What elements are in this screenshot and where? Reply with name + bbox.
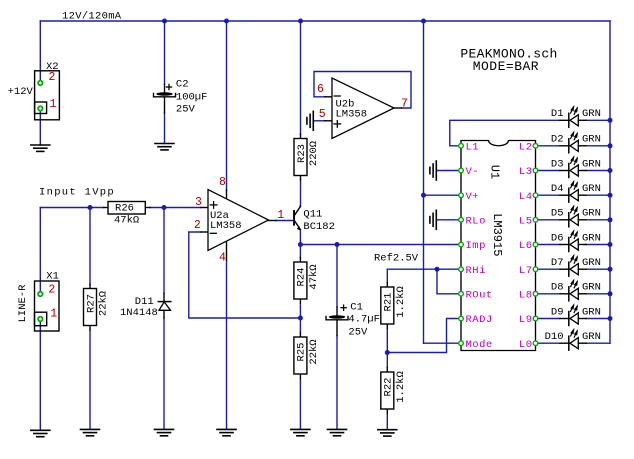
U2b value	[336, 109, 368, 121]
U1 pin label L8	[519, 289, 533, 301]
svg-text:D4: D4	[551, 183, 564, 195]
wire rail to V+ and Mode column	[423, 21, 425, 343]
junction R21/R22 divider	[385, 350, 390, 355]
D2 name	[551, 134, 564, 146]
svg-text:+12V: +12V	[8, 86, 34, 98]
ground C2	[155, 144, 174, 150]
resistor R23	[294, 134, 320, 180]
svg-text:25V: 25V	[348, 326, 368, 338]
svg-text:L9: L9	[519, 314, 533, 326]
X2 pin 1	[37, 105, 43, 111]
U1 value LM3915	[490, 213, 504, 256]
U2a pin 8 number	[219, 176, 226, 189]
svg-text:LM358: LM358	[336, 109, 368, 121]
wire input to X1 pin2	[39, 208, 41, 295]
svg-text:RLo: RLo	[466, 215, 486, 227]
svg-text:220Ω: 220Ω	[308, 141, 320, 166]
C2 value	[176, 91, 208, 103]
wire L2 to D2	[538, 145, 560, 147]
ground V-	[430, 161, 436, 180]
LED D9	[560, 305, 586, 325]
junction on 12V rail	[224, 19, 229, 24]
svg-text:GRN: GRN	[582, 331, 601, 343]
svg-text:1: 1	[50, 308, 57, 321]
capacitor C2	[154, 84, 176, 113]
wire D10 to LED rail	[586, 342, 610, 344]
junction V+ branch	[421, 193, 426, 198]
D8 name	[551, 282, 564, 294]
U2b pin 6 number	[317, 83, 324, 96]
ground R25	[291, 429, 310, 435]
transistor Q11	[293, 206, 301, 231]
wire L1 to D1	[450, 120, 560, 146]
D1 name	[551, 108, 564, 120]
svg-text:7: 7	[401, 98, 408, 111]
wire D8 to LED rail	[586, 293, 610, 295]
U1 pin label L9	[519, 314, 533, 326]
svg-text:47kΩ: 47kΩ	[114, 214, 139, 226]
svg-text:Ref2.5V: Ref2.5V	[374, 253, 419, 265]
svg-text:L1: L1	[466, 141, 480, 153]
U1 pin L9	[533, 316, 538, 321]
wire R23 to Q11 collector	[300, 180, 302, 206]
D10 value GRN	[582, 331, 601, 343]
U1 pin V-	[459, 168, 464, 173]
wire rail to R23	[300, 21, 302, 134]
wire R25 leads	[299, 318, 301, 429]
U2a pin 2 number	[194, 219, 201, 232]
op-amp U2a	[201, 190, 276, 261]
wire D1 to LED rail	[586, 119, 610, 121]
ground U2b pin5	[307, 111, 313, 130]
svg-text:R25: R25	[296, 343, 308, 362]
svg-text:GRN: GRN	[582, 183, 601, 195]
resistor R22	[381, 368, 407, 414]
D11 name	[135, 296, 154, 308]
junction emitter node	[298, 242, 303, 247]
wire U2b feedback loop	[314, 72, 411, 109]
wire divider node to RADJ	[387, 319, 459, 353]
U1 name	[487, 165, 501, 179]
D7 value GRN	[582, 257, 601, 269]
label LINE-R	[17, 284, 29, 323]
svg-text:4.7µF: 4.7µF	[348, 313, 380, 325]
U1 pin V+	[459, 193, 464, 198]
svg-text:L8: L8	[519, 289, 533, 301]
wire input to D11	[163, 208, 165, 294]
svg-text:GRN: GRN	[582, 232, 601, 244]
LED D6	[560, 231, 586, 251]
ground U2a pin4	[217, 429, 236, 435]
net label 12V/120mA	[62, 11, 122, 23]
LED D2	[560, 132, 586, 152]
X2 pin 2 number	[49, 71, 56, 84]
svg-text:D9: D9	[551, 306, 564, 318]
net label Input 1Vpp	[39, 186, 115, 198]
LED D10	[560, 330, 586, 350]
svg-text:Imp: Imp	[466, 240, 486, 252]
wire L0 to D10	[538, 342, 560, 344]
wire D5 to LED rail	[586, 219, 610, 221]
C1 name	[350, 302, 363, 314]
svg-text:V+: V+	[466, 191, 480, 203]
D10 name	[545, 331, 564, 343]
U2b pin 7 number	[401, 98, 408, 111]
wire D4 to LED rail	[586, 194, 610, 196]
U1 pin RLo	[459, 218, 464, 223]
svg-text:GRN: GRN	[582, 257, 601, 269]
svg-text:MODE=BAR: MODE=BAR	[473, 59, 539, 74]
D6 value GRN	[582, 232, 601, 244]
wire L6 to D6	[538, 244, 560, 246]
U1 pin label L7	[519, 265, 533, 277]
D2 value GRN	[582, 134, 601, 146]
wire D3 to LED rail	[586, 170, 610, 172]
U1 pin label L5	[519, 215, 533, 227]
wire X2 pin2 to rail	[39, 21, 41, 83]
svg-text:1: 1	[50, 98, 57, 111]
ground R22	[378, 430, 397, 436]
X1 pin 2 number	[48, 284, 55, 297]
junction input/R27	[88, 205, 93, 210]
junction on 12V rail	[162, 19, 167, 24]
svg-text:R22: R22	[383, 378, 395, 397]
wire D7 to LED rail	[586, 268, 610, 270]
svg-text:R23: R23	[296, 144, 308, 163]
sheet label MODE=BAR	[473, 59, 539, 74]
svg-text:D6: D6	[551, 232, 564, 244]
wire LED anode rail	[609, 21, 611, 343]
svg-text:R21: R21	[383, 293, 395, 312]
wire Mode branch	[424, 342, 460, 344]
svg-text:L4: L4	[519, 191, 533, 203]
svg-text:L5: L5	[519, 215, 533, 227]
svg-text:D1: D1	[551, 108, 564, 120]
svg-text:LINE-R: LINE-R	[17, 284, 29, 323]
connector X2 name	[46, 61, 59, 73]
wire D9 to LED rail	[586, 318, 610, 320]
U1 pin RHi	[459, 267, 464, 272]
svg-text:L2: L2	[519, 141, 533, 153]
svg-text:L6: L6	[519, 240, 533, 252]
U1 pin L0	[533, 341, 538, 346]
junction LED rail	[608, 217, 613, 222]
U1 pin label L2	[519, 141, 533, 153]
svg-text:8: 8	[219, 176, 226, 189]
LED D7	[560, 256, 586, 276]
LED D8	[560, 280, 586, 300]
wire U2a pin4 to ground	[226, 260, 228, 429]
wire RHi line	[387, 268, 459, 270]
svg-text:GRN: GRN	[582, 306, 601, 318]
wire V+ branch	[424, 194, 460, 196]
ground C1	[328, 429, 347, 435]
resistor R27	[84, 284, 110, 330]
junction LED rail	[608, 316, 613, 321]
U1 pin label L0	[519, 339, 533, 351]
svg-text:25V: 25V	[176, 104, 196, 116]
D9 name	[551, 306, 564, 318]
Q11 name	[303, 209, 322, 221]
svg-text:22kΩ: 22kΩ	[308, 339, 320, 364]
wire V- pin to ground	[437, 170, 459, 172]
U1 pin L1	[459, 144, 464, 149]
LED D1	[560, 107, 586, 127]
svg-text:LM358: LM358	[210, 220, 242, 232]
junction LED rail	[608, 168, 613, 173]
svg-text:12V/120mA: 12V/120mA	[62, 11, 122, 23]
wire input to R27	[89, 208, 91, 285]
U1 pin label Mode	[466, 339, 493, 351]
connector X1 name	[46, 271, 59, 283]
U1 pin L5	[533, 218, 538, 223]
wire RLo pin to ground	[437, 219, 459, 221]
U1 pin label RADJ	[466, 314, 493, 326]
connector X2	[35, 71, 60, 120]
junction on 12V rail	[421, 19, 426, 24]
ground RLo	[430, 210, 436, 229]
Q11 value	[303, 221, 335, 233]
connector X1	[35, 281, 60, 331]
junction LED rail	[608, 291, 613, 296]
ground X2	[31, 145, 50, 151]
D3 value GRN	[582, 158, 601, 170]
D5 value GRN	[582, 208, 601, 220]
C2 voltage	[176, 104, 196, 116]
wire input line right	[150, 207, 201, 209]
svg-text:D10: D10	[545, 331, 564, 343]
U1 pin label V-	[466, 166, 480, 178]
wire D2 to LED rail	[586, 145, 610, 147]
svg-text:C1: C1	[350, 302, 363, 314]
wire L8 to D8	[538, 293, 560, 295]
svg-text:GRN: GRN	[582, 108, 601, 120]
resistor R25	[294, 333, 320, 379]
wire Q11 emitter down	[299, 231, 301, 245]
svg-text:2: 2	[48, 284, 55, 297]
wire L9 to D9	[538, 318, 560, 320]
D3 name	[551, 158, 564, 170]
U2a name	[210, 210, 229, 222]
U1 pin Imp	[459, 242, 464, 247]
D7 name	[551, 257, 564, 269]
wire L3 to D3	[538, 170, 560, 172]
wire divider node to R22	[386, 353, 388, 368]
wire U2a pin2 feedback	[189, 232, 301, 318]
junction LED rail	[608, 143, 613, 148]
X1 pin 1	[37, 316, 43, 322]
U1 pin L3	[533, 168, 538, 173]
junction node/C1	[335, 242, 340, 247]
wire ROut branch	[437, 269, 459, 294]
ground D11	[155, 429, 174, 435]
LED D5	[560, 206, 586, 226]
U1 pin L6	[533, 242, 538, 247]
X2 pin 1 number	[50, 98, 57, 111]
junction LED rail	[608, 118, 613, 123]
svg-text:R26: R26	[115, 203, 134, 215]
D6 name	[551, 232, 564, 244]
svg-text:U1: U1	[487, 165, 501, 179]
ground R27	[81, 429, 100, 435]
U1 pin L4	[533, 193, 538, 198]
wire 12V top rail	[40, 20, 610, 22]
U1 pin label L6	[519, 240, 533, 252]
LED D4	[560, 182, 586, 202]
wire X2 pin1 to ground	[39, 109, 41, 146]
svg-text:L3: L3	[519, 166, 533, 178]
capacitor C1	[326, 305, 348, 335]
svg-text:L7: L7	[519, 265, 533, 277]
U2a value	[210, 220, 242, 232]
wire L5 to D5	[538, 219, 560, 221]
U1 pin L2	[533, 144, 538, 149]
U1 pin label L3	[519, 166, 533, 178]
svg-text:GRN: GRN	[582, 208, 601, 220]
LED D3	[560, 157, 586, 177]
U1 pin RADJ	[459, 316, 464, 321]
wire R24 leads	[299, 245, 301, 319]
svg-text:2: 2	[194, 219, 201, 232]
net label Ref2.5V	[374, 253, 419, 265]
D5 name	[551, 208, 564, 220]
wire C2 to ground	[164, 113, 166, 144]
svg-text:GRN: GRN	[582, 282, 601, 294]
svg-text:D5: D5	[551, 208, 564, 220]
svg-text:C2: C2	[176, 79, 189, 91]
svg-text:RHi: RHi	[466, 265, 486, 277]
svg-text:Input 1Vpp: Input 1Vpp	[39, 186, 115, 198]
U1 pin L8	[533, 292, 538, 297]
ground X1	[31, 430, 50, 436]
svg-text:1.2kΩ: 1.2kΩ	[395, 286, 407, 318]
U1 pin label L1	[466, 141, 480, 153]
X1 pin 2	[37, 291, 43, 297]
wire rail to C2	[164, 21, 166, 84]
wire X1 pin1 to ground	[39, 319, 41, 430]
D9 value GRN	[582, 306, 601, 318]
resistor R24	[294, 258, 320, 304]
svg-text:L0: L0	[519, 339, 533, 351]
svg-text:4: 4	[219, 252, 226, 265]
resistor R21	[381, 283, 407, 329]
wire U2a output to Q11 base	[276, 220, 293, 222]
U2b pin 5 number	[319, 108, 326, 121]
U1 pin L7	[533, 267, 538, 272]
svg-text:BC182: BC182	[303, 221, 335, 233]
U1 pin label ROut	[466, 289, 493, 301]
svg-text:6: 6	[317, 83, 324, 96]
wire emitter node to Imp pin	[300, 244, 459, 246]
svg-text:47kΩ: 47kΩ	[308, 264, 320, 289]
D4 name	[551, 183, 564, 195]
svg-text:R24: R24	[296, 268, 308, 287]
U1 pin Mode	[459, 341, 464, 346]
label +12V	[8, 86, 34, 98]
svg-text:RADJ: RADJ	[466, 314, 493, 326]
resistor R26	[104, 202, 150, 215]
svg-text:D3: D3	[551, 158, 564, 170]
svg-text:D7: D7	[551, 257, 564, 269]
svg-text:1: 1	[277, 209, 284, 222]
junction LED rail	[608, 267, 613, 272]
D1 value GRN	[582, 108, 601, 120]
U1 pin label Imp	[466, 240, 486, 252]
U1 pin ROut	[459, 292, 464, 297]
junction R24/R25 feedback node	[298, 316, 303, 321]
D8 value GRN	[582, 282, 601, 294]
svg-text:D8: D8	[551, 282, 564, 294]
svg-text:1N4148: 1N4148	[120, 307, 158, 319]
svg-text:1.2kΩ: 1.2kΩ	[395, 371, 407, 403]
R26 value	[114, 214, 139, 226]
U2a pin 1 number	[277, 209, 284, 222]
svg-text:Mode: Mode	[466, 339, 493, 351]
D11 value	[120, 307, 158, 319]
D4 value GRN	[582, 183, 601, 195]
svg-text:D2: D2	[551, 134, 564, 146]
wire D6 to LED rail	[586, 244, 610, 246]
C1 voltage	[348, 326, 368, 338]
svg-text:2: 2	[49, 71, 56, 84]
R26 name	[115, 203, 134, 215]
junction RHi/ROut	[435, 267, 440, 272]
wire Ref2.5V node to R21	[386, 269, 388, 282]
U1 pin label RHi	[466, 265, 486, 277]
junction input/D11	[162, 205, 167, 210]
X2 pin 2	[37, 80, 43, 86]
wire U2b pin5 to ground	[314, 120, 325, 122]
wire node to C1	[336, 245, 338, 308]
wire R22 to ground	[386, 415, 388, 430]
wire L7 to D7	[538, 268, 560, 270]
wire L4 to D4	[538, 194, 560, 196]
svg-text:GRN: GRN	[582, 134, 601, 146]
diode D11	[158, 293, 171, 318]
svg-text:22kΩ: 22kΩ	[98, 291, 110, 316]
wire R21 bottom to divider node	[386, 330, 388, 353]
svg-text:X1: X1	[46, 271, 59, 283]
wire input line left	[40, 207, 103, 209]
wire R27 to ground	[89, 330, 91, 429]
U2b name	[336, 99, 355, 111]
svg-text:D11: D11	[135, 296, 154, 308]
U1 pin label RLo	[466, 215, 486, 227]
wire C1 to ground	[336, 336, 338, 430]
C1 value	[348, 313, 380, 325]
wire D11 to ground	[163, 318, 165, 429]
svg-text:100µF: 100µF	[176, 91, 208, 103]
svg-text:V-: V-	[466, 166, 480, 178]
U1 pin label V+	[466, 191, 480, 203]
junction on 12V rail	[298, 19, 303, 24]
svg-text:3: 3	[195, 196, 202, 209]
svg-text:GRN: GRN	[582, 158, 601, 170]
svg-text:R27: R27	[85, 294, 97, 313]
op-amp U2b	[325, 78, 402, 139]
C2 name	[176, 79, 189, 91]
U2a pin 3 number	[195, 196, 202, 209]
svg-text:LM3915: LM3915	[490, 213, 504, 256]
U2a pin 4 number	[219, 252, 226, 265]
U1 pin label L4	[519, 191, 533, 203]
sheet label PEAKMONO.sch	[460, 47, 557, 62]
svg-text:ROut: ROut	[466, 289, 493, 301]
wire rail to U2a pin8	[226, 21, 228, 190]
junction LED rail	[608, 242, 613, 247]
X1 pin 1 number	[50, 308, 57, 321]
junction LED rail	[608, 193, 613, 198]
